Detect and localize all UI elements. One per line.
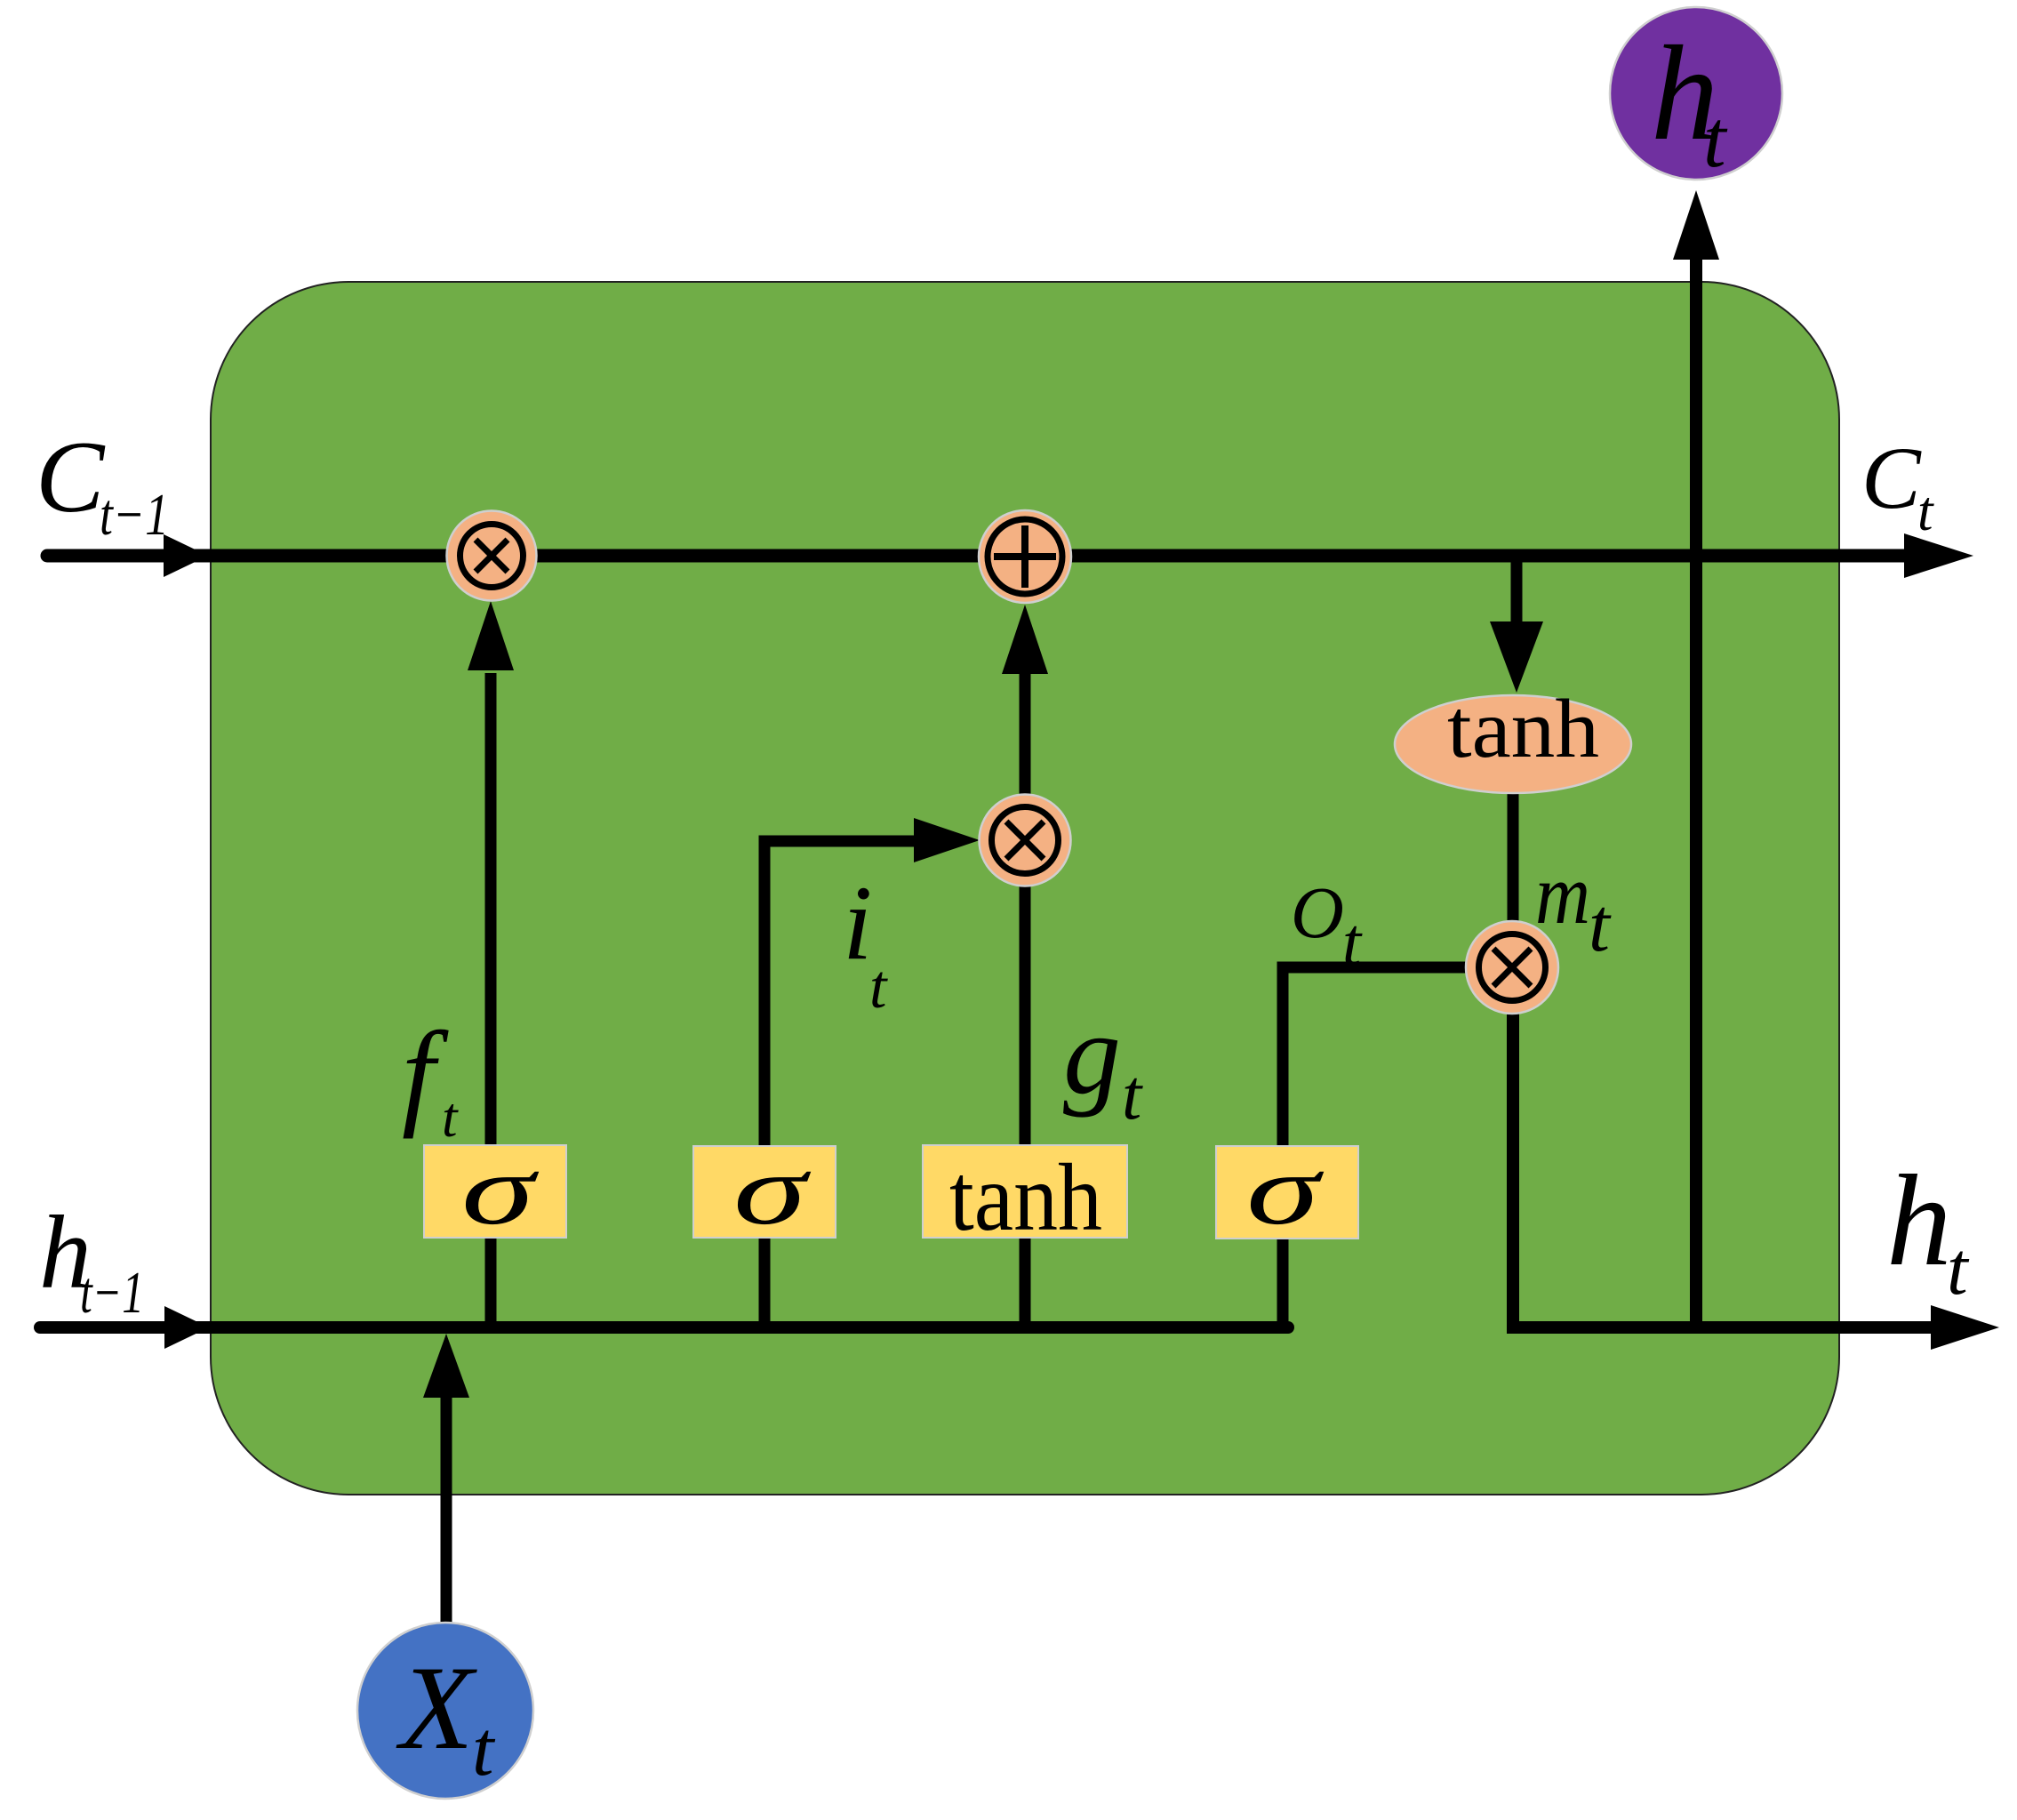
- gate box sigma (input): [693, 1134, 836, 1246]
- adder circle with plus: [979, 510, 1071, 603]
- svg-text:t−1: t−1: [80, 1260, 144, 1326]
- label i_t: [843, 863, 888, 1022]
- svg-text:t−1: t−1: [100, 482, 169, 548]
- arrowhead C_t output: [1904, 533, 1973, 578]
- arrowhead on h line entering cell: [164, 1306, 209, 1349]
- label m_t: [1535, 846, 1612, 967]
- wire: from m multiplier down to h line: [1507, 1010, 1519, 1329]
- wire: arrow from C line down to tanh ellipse: [1511, 556, 1523, 627]
- svg-text:tanh: tanh: [949, 1145, 1102, 1251]
- label g_t: [1063, 990, 1143, 1134]
- svg-text:i: i: [843, 863, 872, 982]
- arrowhead into forget multiplier: [468, 601, 514, 670]
- svg-text:X: X: [396, 1642, 477, 1775]
- wire: output-gate branch (x=1443) with corner to m multiplier: [1283, 967, 1469, 1334]
- wire: h_t vertical (x=1908) from h line up to output circle: [1690, 260, 1702, 1333]
- wire: from tanh ellipse down to m multiplier: [1508, 790, 1519, 925]
- svg-text:C: C: [1861, 429, 1922, 527]
- arrowhead into adder: [1002, 605, 1048, 674]
- arrowhead h_t output: [1931, 1305, 1999, 1350]
- label C_{t-1}: [36, 421, 169, 548]
- svg-text:g: g: [1063, 990, 1121, 1118]
- svg-text:σ: σ: [733, 1134, 812, 1246]
- svg-text:t: t: [442, 1086, 459, 1149]
- svg-text:tanh: tanh: [1447, 683, 1599, 775]
- svg-text:t: t: [1947, 1227, 1970, 1311]
- svg-text:C: C: [36, 421, 106, 534]
- label h_{t-1}: [39, 1194, 144, 1326]
- wire: X_t input arrow up to h line: [441, 1394, 452, 1622]
- svg-text:t: t: [1122, 1056, 1143, 1134]
- svg-text:σ: σ: [1246, 1134, 1325, 1246]
- tanh ellipse (cell state activation): [1395, 683, 1631, 793]
- wire: forget-gate branch (x=552) from h line up to multiplier: [485, 673, 497, 1334]
- multiplier (forget) circle with X: [447, 511, 537, 601]
- wire: from i multiplier up to adder: [1020, 674, 1031, 794]
- wire: input-gate branch (x=860) with corner to i multiplier: [764, 841, 917, 1334]
- wire: cell-state line C (horizontal, y=630): [47, 549, 1911, 563]
- gate box sigma (output): [1216, 1134, 1358, 1246]
- gate box tanh (candidate): [923, 1145, 1127, 1251]
- svg-text:O: O: [1291, 871, 1344, 953]
- svg-text:t: t: [1703, 93, 1728, 184]
- svg-text:t: t: [1589, 882, 1612, 967]
- arrowhead into h_t circle: [1673, 190, 1719, 260]
- wire: candidate branch g (x=1152) from h line up to adder: [1020, 794, 1031, 1334]
- svg-text:m: m: [1535, 846, 1590, 942]
- svg-text:t: t: [869, 953, 888, 1022]
- arrowhead on C line entering cell: [164, 534, 208, 577]
- svg-text:t: t: [472, 1706, 496, 1792]
- label C_t: [1861, 429, 1934, 542]
- svg-text:t: t: [1917, 480, 1934, 542]
- svg-text:σ: σ: [461, 1134, 540, 1246]
- arrowhead into i multiplier: [914, 818, 980, 862]
- label O_t: [1291, 871, 1363, 980]
- wire: h line right segment to h_t output: [1507, 1321, 1938, 1334]
- svg-text:t: t: [1342, 905, 1363, 980]
- output node h_t (purple circle): [1610, 7, 1782, 184]
- LSTM cell body (green rounded rectangle): [211, 282, 1839, 1495]
- gate box sigma (forget): [424, 1134, 566, 1246]
- multiplier (input) circle with X: [980, 795, 1071, 886]
- wire: hidden-state line h left segment (y=1494): [40, 1321, 1288, 1334]
- input node X_t (blue circle): [357, 1623, 533, 1799]
- label h_t output: [1886, 1148, 1970, 1311]
- multiplier (output, m_t) circle with X: [1466, 921, 1558, 1014]
- svg-text:h: h: [1886, 1148, 1952, 1293]
- label f_t: [402, 1007, 459, 1149]
